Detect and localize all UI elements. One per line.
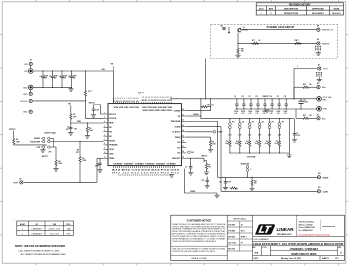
svg-text:R7: R7 <box>212 141 214 143</box>
svg-text:LIGHT LOAD: LIGHT LOAD <box>44 132 56 135</box>
svg-text:R5: R5 <box>16 139 18 141</box>
svg-text:VIN: VIN <box>24 64 28 66</box>
svg-text:www.linear.com: www.linear.com <box>322 226 335 228</box>
svg-text:KEEPER CLK: KEEPER CLK <box>322 30 334 32</box>
svg-text:5.5V - 16V: 5.5V - 16V <box>50 233 60 235</box>
svg-text:LTM4649EY: LTM4649EY <box>32 229 43 231</box>
svg-text:VIN: VIN <box>53 224 57 226</box>
svg-text:VOSNS: VOSNS <box>174 111 181 113</box>
svg-text:GND: GND <box>23 87 28 89</box>
svg-text:VOUT SEL: VOUT SEL <box>247 157 257 159</box>
svg-text:6.3V: 6.3V <box>256 113 259 115</box>
svg-text:TRACK/SS: TRACK/SS <box>241 162 250 165</box>
svg-text:R6: R6 <box>208 104 210 106</box>
svg-text:1 2 3 4 5 6 7 8 9 10 11: 1 2 3 4 5 6 7 8 9 10 11 <box>113 98 139 100</box>
svg-text:VOs: VOs <box>322 87 325 89</box>
svg-text:E5: E5 <box>20 179 22 181</box>
svg-text:OPT: OPT <box>66 129 69 131</box>
svg-text:DOC CTRL: DOC CTRL <box>228 242 236 244</box>
svg-text:E11: E11 <box>318 187 321 189</box>
svg-text:100UF: 100UF <box>283 111 287 113</box>
svg-text:10: 10 <box>104 152 106 154</box>
svg-text:LTM4649EY / LTM4649EY: LTM4649EY / LTM4649EY <box>290 248 319 251</box>
svg-text:REVISION HISTORY: REVISION HISTORY <box>289 4 311 6</box>
svg-text:OPT: OPT <box>73 116 76 118</box>
svg-text:C18: C18 <box>219 182 222 184</box>
svg-text:CUSTOMER NOTICE: CUSTOMER NOTICE <box>187 220 212 223</box>
svg-text:REL ENG: REL ENG <box>228 248 236 250</box>
svg-text:CLKIN: CLKIN <box>323 191 329 193</box>
svg-text:Monday, June 10, 2013: Monday, June 10, 2013 <box>281 258 301 260</box>
svg-text:TRACK/SS: TRACK/SS <box>171 120 181 123</box>
svg-text:R9: R9 <box>82 158 84 160</box>
svg-text:R16: R16 <box>256 141 259 143</box>
svg-text:N/A: N/A <box>255 251 259 254</box>
svg-text:0.1UF: 0.1UF <box>296 135 300 137</box>
svg-text:OF 1: OF 1 <box>335 258 339 260</box>
svg-text:06-10-13: 06-10-13 <box>332 13 341 15</box>
svg-text:22UF: 22UF <box>63 76 67 78</box>
svg-text:JP7: JP7 <box>271 122 274 124</box>
svg-text:11: 11 <box>104 157 106 159</box>
svg-text:C1: C1 <box>40 76 42 78</box>
svg-text:E10: E10 <box>318 173 321 175</box>
svg-text:APPROVALS: APPROVALS <box>234 217 247 220</box>
svg-text:DYNAMIC LOAD CIRCUIT: DYNAMIC LOAD CIRCUIT <box>267 26 295 29</box>
svg-text:C11: C11 <box>248 96 251 98</box>
svg-text:100UF: 100UF <box>248 111 252 113</box>
svg-text:22UF: 22UF <box>44 76 48 78</box>
svg-text:LTM4649EY: LTM4649EY <box>32 233 43 235</box>
svg-text:JP8: JP8 <box>281 122 284 124</box>
svg-text:REV: REV <box>269 8 274 10</box>
svg-text:6.3V: 6.3V <box>249 113 252 115</box>
svg-text:R23: R23 <box>235 189 238 191</box>
svg-text:DATE: DATE <box>334 7 340 10</box>
svg-text:MODE: MODE <box>109 140 115 142</box>
svg-text:BURST: BURST <box>34 138 41 140</box>
svg-text:PRODUCTION: PRODUCTION <box>284 13 298 15</box>
svg-text:C16: C16 <box>284 96 287 98</box>
svg-text:R1 **: R1 ** <box>88 91 92 93</box>
svg-text:A2 B2 C2 D2 E2 F2 G2 H2 J2 K2: A2 B2 C2 D2 E2 F2 G2 H2 J2 K2 <box>142 99 173 102</box>
svg-text:100UF: 100UF <box>269 111 273 113</box>
svg-text:CCM: CCM <box>36 147 40 149</box>
svg-text:PGOOD: PGOOD <box>109 118 117 120</box>
svg-text:C2: C2 <box>49 76 51 78</box>
svg-text:GPIO: GPIO <box>109 149 114 151</box>
svg-text:R17: R17 <box>252 40 255 42</box>
svg-text:FREQ: FREQ <box>175 137 181 139</box>
svg-text:C12: C12 <box>255 96 258 98</box>
svg-text:TEMP: TEMP <box>109 158 115 160</box>
svg-text:KEEPER: KEEPER <box>322 43 330 45</box>
svg-text:4: 4 <box>22 233 23 235</box>
svg-text:C12: C12 <box>96 163 99 165</box>
svg-text:JP2: JP2 <box>74 128 77 130</box>
svg-text:C9: C9 <box>234 96 236 98</box>
svg-text:VOSNS: VOSNS <box>190 191 195 193</box>
svg-text:TECHNOLOGY: TECHNOLOGY <box>277 234 293 236</box>
svg-text:HIGH EFFICIENCY, 10A STEP-DOWN: HIGH EFFICIENCY, 10A STEP-DOWN μMODULE R… <box>253 243 343 246</box>
svg-text:R9: R9 <box>77 150 79 152</box>
svg-text:VIN VIN VIN VIN VIN: VIN VIN VIN VIN VIN <box>114 107 140 109</box>
svg-text:R8: R8 <box>208 165 210 167</box>
svg-text:E12: E12 <box>221 25 224 27</box>
svg-text:6.3V: 6.3V <box>242 113 245 115</box>
svg-text:6.3V: 6.3V <box>284 113 287 115</box>
svg-text:E6: E6 <box>317 114 319 116</box>
svg-text:INTVCC: INTVCC <box>89 102 96 104</box>
svg-text:CLKOUT: CLKOUT <box>172 132 181 134</box>
svg-text:PGOOD: PGOOD <box>20 101 28 103</box>
svg-text:SCALE = NONE: SCALE = NONE <box>191 257 207 260</box>
svg-text:R22: R22 <box>254 181 257 183</box>
svg-text:R13: R13 <box>226 141 229 143</box>
svg-text:DESCRIPTION: DESCRIPTION <box>284 8 299 10</box>
svg-text:LINEAR: LINEAR <box>277 227 295 232</box>
svg-text:C3: C3 <box>59 76 61 78</box>
svg-text:INTVCC: INTVCC <box>109 114 117 116</box>
svg-text:12 13 14 15 16 17 18 19 20 21: 12 13 14 15 16 17 18 19 20 21 <box>142 97 173 99</box>
svg-text:C13: C13 <box>262 96 265 98</box>
svg-text:PHMODE: PHMODE <box>109 145 118 147</box>
svg-text:IC NO.: IC NO. <box>262 247 267 249</box>
svg-text:6.3V: 6.3V <box>263 113 266 115</box>
svg-text:2.375V - 5.5V: 2.375V - 5.5V <box>48 229 60 231</box>
svg-text:100UF: 100UF <box>276 111 280 113</box>
svg-text:JP5: JP5 <box>252 122 255 124</box>
svg-text:TEMP: TEMP <box>13 182 19 184</box>
svg-text:GND: GND <box>323 109 328 111</box>
svg-text:OPT: OPT <box>76 152 79 154</box>
svg-text:R18 **: R18 ** <box>295 40 300 42</box>
svg-text:VOs: VOs <box>322 118 325 120</box>
svg-text:DEMO CIRCUIT 1806A: DEMO CIRCUIT 1806A <box>291 253 317 256</box>
svg-text:APPROVED: APPROVED <box>312 7 324 10</box>
svg-text:C9: C9 <box>296 133 298 135</box>
svg-text:SHEET 1: SHEET 1 <box>322 258 329 260</box>
svg-text:VIN: VIN <box>24 71 28 73</box>
svg-text:INTVCC: INTVCC <box>9 129 16 131</box>
svg-text:100: 100 <box>309 84 312 86</box>
svg-text:100UF: 100UF <box>234 111 238 113</box>
svg-text:E8: E8 <box>317 26 319 28</box>
svg-text:4: 4 <box>22 229 23 231</box>
svg-text:NOTE: UNLESS OTHERWISE SPECIFI: NOTE: UNLESS OTHERWISE SPECIFIED <box>15 244 65 248</box>
svg-text:VIN: VIN <box>111 64 114 66</box>
svg-text:100UF: 100UF <box>241 111 245 113</box>
svg-text:SIZE: SIZE <box>252 247 255 249</box>
svg-text:WH 1/WHPT: WH 1/WHPT <box>312 13 325 15</box>
svg-text:PULSE SKIP: PULSE SKIP <box>30 142 41 144</box>
svg-text:GND GND GND GND GND: GND GND GND GND GND <box>142 110 172 112</box>
svg-text:TRACK: TRACK <box>323 176 330 179</box>
svg-text:C15: C15 <box>276 96 279 98</box>
svg-text:JP1: JP1 <box>49 152 52 154</box>
svg-text:R18: R18 <box>276 141 279 143</box>
svg-text:GND: GND <box>109 154 114 156</box>
svg-text:1: 1 <box>297 66 298 68</box>
svg-text:RUN: RUN <box>109 123 114 125</box>
svg-text:C8: C8 <box>304 100 306 102</box>
svg-text:1. ALL RESISTORS ARE IN OHMS 5: 1. ALL RESISTORS ARE IN OHMS 5%, SMD. <box>18 250 60 253</box>
svg-text:E7: E7 <box>318 64 320 66</box>
svg-text:22UF: 22UF <box>73 76 77 78</box>
svg-text:100: 100 <box>309 115 312 117</box>
svg-text:R21: R21 <box>303 115 306 117</box>
svg-text:WHPT 2: WHPT 2 <box>241 236 247 238</box>
svg-text:100UF: 100UF <box>304 102 308 104</box>
svg-text:R3: R3 <box>89 128 91 130</box>
svg-text:50 OHM: 50 OHM <box>217 132 223 134</box>
svg-text:6.3V: 6.3V <box>270 113 273 115</box>
svg-text:H12 J12 K12 L12 M12 N12 P12: H12 J12 K12 L12 M12 N12 P12 <box>112 172 180 174</box>
svg-text:C6: C6 <box>185 167 187 169</box>
svg-text:0.1UF: 0.1UF <box>227 182 231 184</box>
svg-text:GND: GND <box>23 112 28 114</box>
svg-text:100UF: 100UF <box>255 111 259 113</box>
svg-text:22UF: 22UF <box>54 76 58 78</box>
svg-text:PT: PT <box>241 242 243 244</box>
svg-text:INTVCC: INTVCC <box>42 156 49 158</box>
svg-text:GND: GND <box>23 94 28 96</box>
svg-text:JP6: JP6 <box>261 122 264 124</box>
svg-text:REV: REV <box>338 247 341 249</box>
svg-text:JP3: JP3 <box>232 122 235 124</box>
svg-text:DRVOUT: DRVOUT <box>172 158 181 160</box>
svg-text:121K: 121K <box>212 143 215 145</box>
svg-text:WH 1: WH 1 <box>241 230 245 232</box>
svg-text:R2: R2 <box>73 114 75 116</box>
svg-text:Q1: Q1 <box>243 27 245 29</box>
svg-text:R17: R17 <box>266 141 269 143</box>
svg-text:R15: R15 <box>246 141 249 143</box>
svg-text:R20: R20 <box>303 84 306 86</box>
svg-text:VOSNS: VOSNS <box>193 114 199 116</box>
svg-text:0.1UF: 0.1UF <box>95 109 99 111</box>
svg-text:ASSY: ASSY <box>20 223 26 226</box>
svg-text:6.3V: 6.3V <box>277 113 280 115</box>
svg-text:*: * <box>14 221 15 223</box>
svg-text:C10: C10 <box>241 96 244 98</box>
svg-text:PCB DES: PCB DES <box>228 224 235 226</box>
svg-text:SW VIN SW VIN SW VIN: SW VIN SW VIN SW VIN <box>142 107 173 109</box>
svg-text:GND GND GND GND GND GND: GND GND GND GND GND GND <box>113 164 177 166</box>
svg-text:CLKIN: CLKIN <box>174 126 180 128</box>
svg-text:A12 B12 C12 D12 E12 F12 G12: A12 B12 C12 D12 E12 F12 G12 <box>112 169 180 172</box>
svg-text:10K: 10K <box>254 183 256 185</box>
svg-text:R19: R19 <box>241 48 244 50</box>
svg-text:U1 **: U1 ** <box>139 93 144 95</box>
svg-text:ECO: ECO <box>259 8 264 10</box>
svg-text:PCB ENG: PCB ENG <box>228 230 236 232</box>
svg-text:ALL CAPACITORS ARE IN MICROFAR: ALL CAPACITORS ARE IN MICROFARADS SMD. <box>21 253 67 256</box>
svg-text:FILE: SCHEMATIC: FILE: SCHEMATIC <box>254 238 270 241</box>
svg-text:INTVCC: INTVCC <box>202 156 209 158</box>
svg-text:10K: 10K <box>208 167 210 169</box>
svg-text:6.3V: 6.3V <box>235 113 238 115</box>
svg-text:E9: E9 <box>317 39 319 41</box>
svg-text:E1: E1 <box>30 60 32 62</box>
